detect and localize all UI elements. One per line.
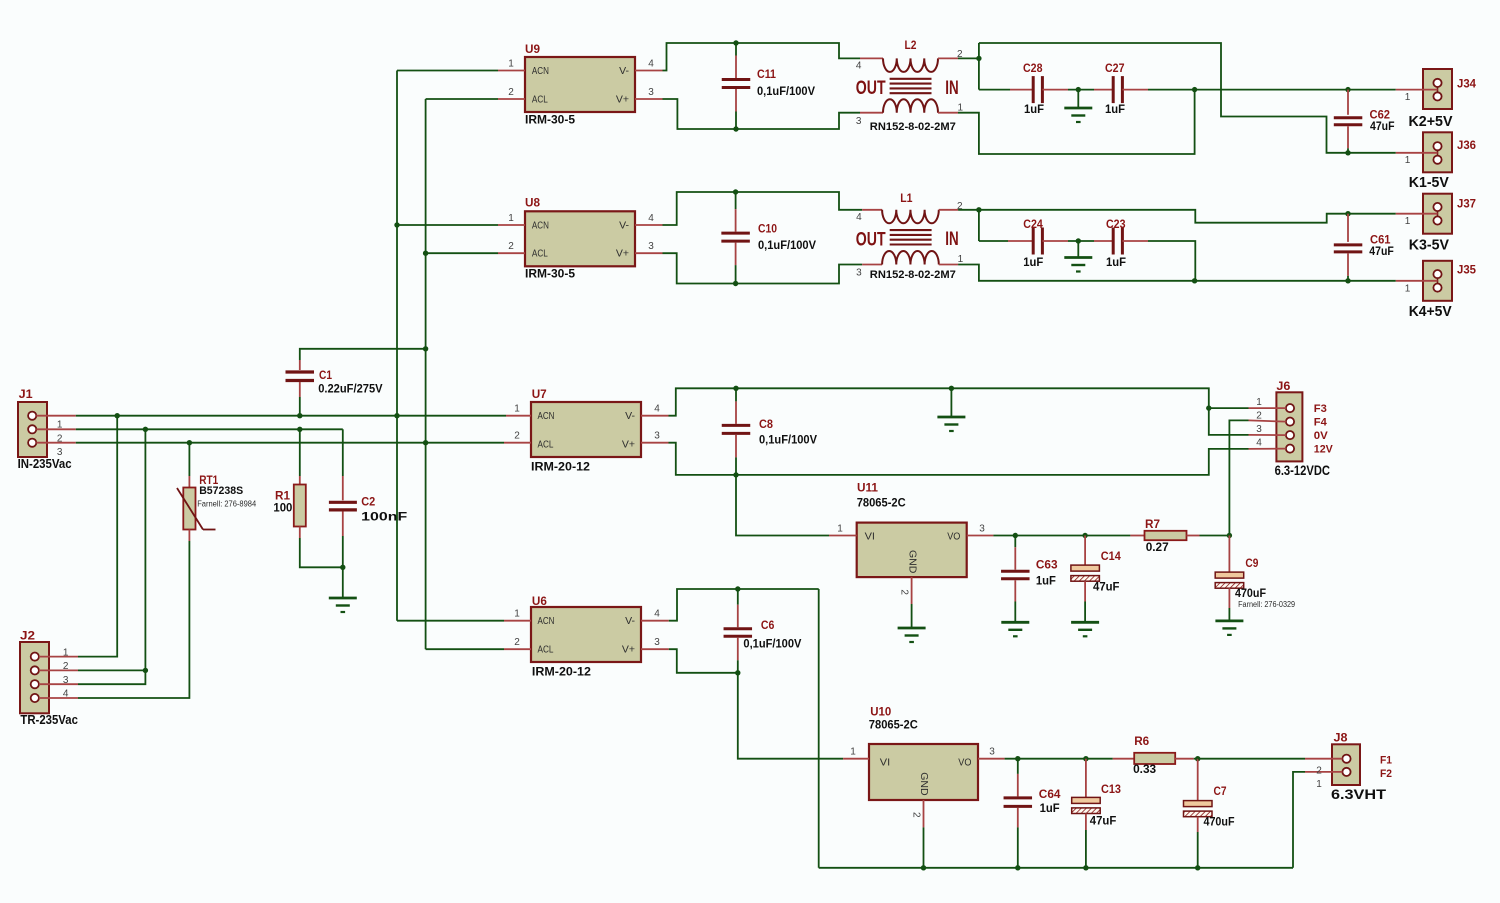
wire U8 ACN to vertical bus A (397, 224, 498, 226)
capacitor C2 (329, 429, 407, 567)
capacitor C11 (722, 43, 815, 129)
IC U7 IRM-20-12 body (531, 387, 641, 474)
svg-text:K1-5V: K1-5V (1409, 174, 1449, 191)
wire J2 pin2 link (78, 669, 145, 671)
svg-text:1uF: 1uF (1036, 574, 1056, 588)
svg-text:K4+5V: K4+5V (1409, 303, 1452, 320)
choke L1 top winding (856, 191, 963, 223)
net label 6.3VHT (1331, 786, 1387, 802)
svg-text:3: 3 (648, 241, 654, 252)
choke L1 core (856, 229, 959, 250)
U11 pin 2 stub (899, 577, 912, 628)
ground C9 (1215, 621, 1243, 635)
U7 pin 3 stub (641, 431, 669, 443)
net label F3 (1314, 403, 1327, 415)
IC U11 78065-2C body (857, 481, 967, 577)
svg-text:1: 1 (1405, 155, 1411, 166)
svg-text:2: 2 (508, 87, 514, 98)
svg-text:K2+5V: K2+5V (1409, 113, 1453, 130)
net label F4 (1314, 417, 1328, 429)
wire U8 V+ to bottom rail (663, 253, 863, 283)
node J2 pin1 junction (115, 413, 120, 418)
node bus B at J1 pin3 line (423, 440, 428, 445)
node C10 top (733, 189, 738, 194)
svg-text:U9: U9 (525, 42, 540, 56)
svg-text:100nF: 100nF (361, 510, 407, 524)
capacitor C28 (1010, 61, 1068, 116)
svg-text:1uF: 1uF (1040, 801, 1060, 815)
wire U9 V+ to bottom rail (663, 99, 861, 129)
svg-text:0,1uF/100V: 0,1uF/100V (759, 433, 817, 447)
node bus A at U8 (394, 222, 399, 227)
svg-text:C11: C11 (757, 67, 776, 81)
U11 pin 3 stub (967, 524, 994, 536)
svg-text:OUT: OUT (856, 78, 886, 99)
connector J8 (1305, 731, 1360, 791)
connector J6 (1249, 379, 1303, 461)
node R1 top (297, 427, 302, 432)
svg-text:1uF: 1uF (1106, 255, 1126, 269)
connector J1 (18, 387, 76, 458)
net label TR-235Vac (20, 712, 78, 727)
connector J2 (20, 629, 78, 714)
net label 6.3-12VDC (1275, 462, 1330, 478)
svg-text:1uF: 1uF (1024, 102, 1044, 116)
choke L2 bottom winding (856, 99, 964, 133)
svg-text:C8: C8 (759, 417, 773, 431)
U9 pin 4 stub (635, 59, 663, 71)
wire U10 VO line (1005, 758, 1113, 760)
ground row1 filter (1064, 90, 1092, 122)
svg-text:0V: 0V (1314, 430, 1329, 442)
connector J36 (1396, 132, 1477, 172)
wire U7 bottom to U11 VI (736, 475, 829, 536)
svg-text:0,1uF/100V: 0,1uF/100V (757, 84, 815, 98)
node RT1 top (187, 440, 192, 445)
svg-text:3: 3 (654, 431, 660, 442)
svg-text:K3-5V: K3-5V (1409, 237, 1449, 254)
node C6 top (735, 586, 740, 591)
svg-text:VI: VI (865, 531, 875, 543)
svg-text:1: 1 (1405, 216, 1411, 227)
svg-text:IN: IN (945, 78, 958, 99)
node row2 filter ground tap (1076, 238, 1081, 243)
svg-text:J34: J34 (1457, 77, 1476, 91)
svg-text:2: 2 (63, 661, 69, 672)
net label K4+5V (1409, 303, 1452, 320)
wire U7 V- top rail (669, 388, 1249, 435)
svg-text:V-: V- (625, 615, 635, 627)
svg-text:Farnell: 276-8984: Farnell: 276-8984 (197, 500, 257, 509)
node L1 out (976, 207, 981, 212)
wire U11 VO line (993, 535, 1130, 537)
svg-text:C1: C1 (319, 368, 332, 382)
svg-text:C28: C28 (1023, 61, 1043, 75)
svg-text:IN-235Vac: IN-235Vac (18, 456, 72, 471)
wire U9 ACL to vertical bus B (426, 98, 498, 100)
svg-text:V+: V+ (616, 94, 629, 106)
svg-text:2: 2 (911, 812, 922, 818)
U6 pin 2 stub (504, 637, 531, 649)
svg-text:U11: U11 (857, 481, 878, 495)
wire J2 pin3 riser (78, 429, 145, 684)
svg-text:C9: C9 (1245, 556, 1258, 570)
U6 pin 1 stub (504, 609, 531, 621)
svg-text:1: 1 (1405, 92, 1411, 103)
capacitor C63 (1001, 533, 1058, 623)
svg-text:VO: VO (947, 531, 960, 543)
svg-text:470uF: 470uF (1235, 586, 1266, 600)
wire U6 V- to top rail (669, 589, 819, 621)
svg-text:1: 1 (850, 747, 856, 758)
capacitor C1 (286, 360, 383, 416)
svg-text:R6: R6 (1134, 734, 1149, 748)
svg-text:47uF: 47uF (1370, 119, 1395, 133)
U10 pin 1 stub (843, 747, 869, 759)
wire U8 ACL to vertical bus B (426, 252, 498, 254)
svg-text:V-: V- (619, 219, 629, 231)
node L2 out (976, 56, 981, 61)
svg-text:C64: C64 (1039, 787, 1061, 801)
svg-text:3: 3 (979, 524, 985, 535)
wire J1 pin1 line L (76, 415, 506, 417)
node C11 top (733, 40, 738, 45)
svg-text:4: 4 (648, 213, 654, 224)
svg-text:4: 4 (856, 212, 862, 223)
svg-text:J37: J37 (1457, 197, 1476, 211)
node row1 return riser (1192, 87, 1197, 92)
choke L2 top winding (856, 38, 963, 72)
connector J35 (1396, 261, 1477, 301)
node C2 bottom joint (340, 565, 345, 570)
svg-text:3: 3 (989, 747, 995, 758)
svg-text:ACL: ACL (532, 248, 548, 260)
vertical bus A (396, 71, 398, 621)
U10 pin 2 stub (911, 800, 924, 868)
svg-text:78065-2C: 78065-2C (857, 495, 906, 509)
capacitor C10 (721, 192, 816, 284)
node J2 pin2 junction (143, 668, 148, 673)
svg-text:1: 1 (63, 647, 69, 658)
U9 pin 3 stub (635, 87, 663, 99)
node C1 bottom (297, 413, 302, 418)
svg-text:2: 2 (514, 637, 520, 648)
svg-text:0,1uF/100V: 0,1uF/100V (743, 636, 801, 650)
svg-text:V-: V- (619, 65, 629, 77)
U8 pin 4 stub (635, 213, 663, 225)
capacitor C13 electrolytic (1072, 756, 1122, 868)
node J6 pin1 branch (1206, 405, 1211, 410)
resistor R6 (1113, 734, 1198, 776)
svg-text:V+: V+ (616, 248, 629, 260)
wire row2 filter line (979, 241, 1195, 281)
wire J6 pin1 branch (1209, 407, 1249, 409)
svg-text:ACN: ACN (532, 219, 549, 231)
wire rail riser to J8 F2 (1293, 772, 1305, 868)
capacitor C62 (1334, 87, 1395, 156)
node U10 GND rail (921, 865, 926, 870)
node C7 rail (1195, 865, 1200, 870)
svg-text:C6: C6 (761, 618, 775, 632)
choke L1 bottom winding (856, 251, 964, 281)
wire J1 pin2 line N (76, 428, 343, 430)
node C1 top bus B (423, 346, 428, 351)
vertical bus B (425, 99, 427, 649)
svg-text:2: 2 (1256, 411, 1262, 422)
wire J6 pin2 to regulator node (1229, 420, 1248, 535)
ground main input (329, 567, 357, 612)
U8 pin 3 stub (635, 241, 663, 253)
svg-text:IRM-20-12: IRM-20-12 (531, 460, 590, 474)
svg-text:RN152-8-02-2M7: RN152-8-02-2M7 (870, 269, 956, 281)
capacitor C6 (724, 589, 802, 673)
svg-text:C2: C2 (361, 495, 375, 509)
wire row1 filter line (979, 89, 1396, 91)
svg-text:6.3VHT: 6.3VHT (1331, 786, 1387, 802)
capacitor C8 (722, 388, 817, 475)
svg-text:78065-2C: 78065-2C (869, 717, 918, 731)
svg-text:IRM-20-12: IRM-20-12 (532, 665, 591, 679)
U10 pin 3 stub (978, 747, 1005, 759)
svg-text:ACN: ACN (538, 615, 555, 627)
svg-text:VO: VO (958, 756, 971, 768)
svg-text:3: 3 (648, 87, 654, 98)
wire row2 top feed to J37 (979, 210, 1396, 223)
wire top rail drop to bottom rail (818, 589, 820, 868)
resistor R7 (1130, 517, 1229, 554)
svg-text:U10: U10 (870, 704, 891, 718)
wire row1 top bypass to J36 (979, 43, 1396, 153)
svg-text:4: 4 (63, 689, 69, 700)
wire L2 pin2 node riser (958, 43, 979, 90)
U8 pin 1 stub (498, 213, 525, 225)
wire J2 pin1 riser (78, 416, 117, 657)
wire U6 V+ to C6 bottom (669, 649, 738, 673)
U7 pin 1 stub (506, 404, 531, 416)
svg-text:V+: V+ (622, 438, 635, 450)
svg-text:U7: U7 (532, 387, 547, 401)
svg-text:2: 2 (57, 433, 63, 444)
wire U7 V+ bottom rail (669, 443, 1249, 475)
capacitor C61 (1334, 211, 1394, 283)
svg-text:1: 1 (514, 609, 520, 620)
svg-text:J6: J6 (1276, 379, 1290, 393)
svg-text:R7: R7 (1145, 517, 1160, 531)
wire L1 pin2 node riser (958, 210, 979, 241)
capacitor C7 electrolytic (1184, 759, 1235, 868)
wire bottom ground rail (819, 867, 1293, 869)
svg-text:RN152-8-02-2M7: RN152-8-02-2M7 (870, 121, 956, 133)
connector J34 (1396, 69, 1477, 109)
U9 pin 2 stub (498, 87, 525, 99)
svg-text:1: 1 (958, 254, 964, 265)
svg-text:ACN: ACN (532, 65, 549, 77)
svg-text:1: 1 (1256, 397, 1262, 408)
svg-text:C14: C14 (1101, 549, 1121, 563)
svg-text:OUT: OUT (856, 230, 886, 251)
svg-text:1: 1 (508, 59, 514, 70)
svg-text:1: 1 (514, 404, 520, 415)
svg-text:U6: U6 (532, 594, 547, 608)
svg-text:C13: C13 (1101, 782, 1121, 796)
wire J1 pin3 line (76, 442, 504, 444)
node row1 filter ground tap (1076, 87, 1081, 92)
wire C1 top link to bus B (300, 349, 426, 360)
svg-text:3: 3 (654, 637, 660, 648)
svg-text:ACN: ACN (538, 410, 555, 422)
svg-text:IRM-30-5: IRM-30-5 (525, 113, 575, 127)
net label K3-5V (1409, 237, 1449, 254)
svg-text:100: 100 (273, 501, 292, 515)
net label 0V (1314, 430, 1329, 442)
svg-text:12V: 12V (1314, 444, 1334, 456)
svg-text:IRM-30-5: IRM-30-5 (525, 267, 575, 281)
svg-text:L2: L2 (905, 38, 917, 52)
svg-text:47uF: 47uF (1369, 244, 1394, 258)
svg-text:ACL: ACL (538, 644, 554, 656)
svg-text:C24: C24 (1023, 217, 1043, 231)
ground row2 filter (1064, 241, 1092, 272)
svg-text:F4: F4 (1314, 417, 1328, 429)
svg-text:L1: L1 (900, 191, 913, 205)
svg-text:J1: J1 (19, 387, 33, 401)
node row3 rail ground tap (949, 386, 954, 391)
svg-text:C10: C10 (758, 222, 777, 236)
ground U11 (898, 628, 926, 642)
svg-text:4: 4 (856, 61, 862, 72)
svg-text:J2: J2 (20, 629, 35, 643)
node C8 bottom (733, 472, 738, 477)
svg-text:F3: F3 (1314, 403, 1327, 415)
svg-text:4: 4 (1256, 438, 1262, 449)
node J2 pin3 junction top (143, 427, 148, 432)
svg-text:4: 4 (654, 609, 660, 620)
svg-text:C7: C7 (1214, 784, 1227, 798)
capacitor C27 (1094, 61, 1148, 116)
IC U8 IRM-30-5 body (525, 196, 635, 281)
net label K2+5V (1409, 113, 1453, 130)
node C13 rail (1083, 865, 1088, 870)
net label IN-235Vac (18, 456, 72, 471)
node R7 out (1227, 533, 1232, 538)
svg-text:U8: U8 (525, 196, 540, 210)
capacitor C24 (1008, 217, 1068, 269)
svg-text:GND: GND (907, 550, 919, 574)
svg-text:2: 2 (899, 589, 910, 595)
svg-text:1: 1 (1405, 283, 1411, 294)
U9 pin 1 stub (498, 59, 525, 71)
svg-text:VI: VI (880, 756, 890, 768)
choke L2 core (856, 78, 959, 99)
svg-text:0,1uF/100V: 0,1uF/100V (758, 238, 816, 252)
connector J37 (1396, 194, 1477, 234)
svg-text:J36: J36 (1457, 138, 1476, 152)
U11 pin 1 stub (829, 524, 857, 536)
capacitor C23 (1094, 217, 1148, 269)
svg-text:1uF: 1uF (1023, 255, 1043, 269)
resistor R1 (273, 429, 342, 567)
svg-text:4: 4 (648, 59, 654, 70)
svg-text:2: 2 (514, 431, 520, 442)
wire U9 ACN to vertical bus A (397, 70, 498, 72)
node C6 bottom (735, 670, 740, 675)
wire L2 pin1 to bottom return (958, 90, 1195, 154)
svg-text:3: 3 (856, 116, 862, 127)
svg-text:1: 1 (57, 420, 63, 431)
U7 pin 2 stub (504, 431, 531, 443)
wire J2 pin4 to RT1 (78, 541, 189, 698)
svg-text:F1: F1 (1380, 755, 1392, 767)
svg-text:3: 3 (1256, 424, 1262, 435)
svg-text:V-: V- (625, 410, 635, 422)
svg-text:C23: C23 (1106, 217, 1126, 231)
ground row3 rail (937, 388, 965, 431)
wire L1 pin1 to bottom return (958, 265, 1396, 281)
svg-text:J8: J8 (1334, 731, 1348, 745)
node R6 out (1195, 756, 1200, 761)
svg-text:0.33: 0.33 (1133, 762, 1156, 776)
net label 12V (1314, 444, 1334, 456)
svg-text:6.3-12VDC: 6.3-12VDC (1275, 462, 1330, 478)
capacitor C9 electrolytic (1215, 536, 1295, 621)
svg-text:C63: C63 (1036, 557, 1058, 571)
node bus A at line L (394, 413, 399, 418)
svg-text:V+: V+ (622, 644, 635, 656)
svg-text:TR-235Vac: TR-235Vac (20, 712, 78, 727)
svg-text:3: 3 (63, 675, 69, 686)
svg-text:0.22uF/275V: 0.22uF/275V (318, 382, 382, 396)
svg-text:1: 1 (1316, 779, 1322, 790)
U6 pin 4 stub (641, 609, 669, 621)
IC U10 78065-2C body (869, 704, 978, 800)
wire U8 V- to top rail (663, 192, 863, 225)
IC U9 IRM-30-5 body (525, 42, 635, 127)
svg-text:Farnell: 276-0329: Farnell: 276-0329 (1238, 600, 1295, 609)
svg-text:1: 1 (508, 213, 514, 224)
capacitor C64 (1004, 756, 1061, 868)
wire U9 V- to top rail (663, 43, 861, 71)
U7 pin 4 stub (641, 404, 669, 416)
wire bus B to U6 ACL (426, 648, 504, 650)
svg-text:1uF: 1uF (1105, 102, 1125, 116)
capacitor C14 electrolytic (1071, 533, 1121, 623)
svg-text:1: 1 (837, 524, 843, 535)
node C64 rail (1015, 865, 1020, 870)
svg-text:47uF: 47uF (1090, 814, 1117, 828)
IC U6 IRM-20-12 body (531, 594, 641, 679)
svg-text:ACL: ACL (532, 94, 548, 106)
U8 pin 2 stub (498, 241, 525, 253)
node bus B at U8 (423, 251, 428, 256)
node C11 bottom (733, 126, 738, 131)
U6 pin 3 stub (641, 637, 669, 649)
net label K1-5V (1409, 174, 1449, 191)
ground C63 (1001, 622, 1029, 636)
net label F2 (1380, 768, 1392, 780)
svg-text:IN: IN (945, 229, 958, 250)
svg-text:47uF: 47uF (1093, 579, 1120, 593)
svg-text:GND: GND (918, 772, 930, 796)
svg-text:B57238S: B57238S (199, 485, 243, 497)
svg-text:4: 4 (654, 404, 660, 415)
svg-text:1: 1 (958, 102, 964, 113)
node row2 return riser (1192, 278, 1197, 283)
svg-text:F2: F2 (1380, 768, 1392, 780)
net label F1 (1380, 755, 1392, 767)
svg-text:0.27: 0.27 (1146, 540, 1169, 554)
wire bus A to U6 ACN (397, 620, 504, 622)
svg-text:3: 3 (856, 268, 862, 279)
